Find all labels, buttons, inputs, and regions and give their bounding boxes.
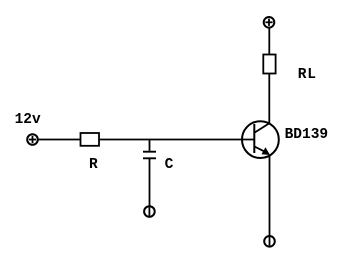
svg-text:12v: 12v	[15, 112, 41, 128]
svg-text:RL: RL	[298, 67, 317, 83]
svg-text:BD139: BD139	[285, 127, 329, 143]
svg-text:C: C	[165, 157, 174, 173]
svg-text:R: R	[89, 157, 98, 173]
